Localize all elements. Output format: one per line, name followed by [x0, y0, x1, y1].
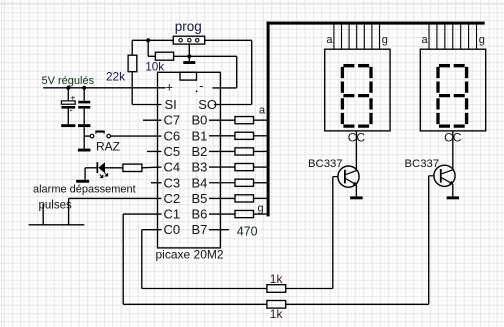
connector prog pin2 — [188, 39, 191, 42]
wire 22k top lead — [131, 40, 133, 55]
svg-text:+: + — [70, 93, 75, 103]
junction dot prog-10k — [146, 38, 150, 42]
wire RAZ to C6 — [111, 135, 162, 137]
pin stub B7 — [209, 229, 229, 231]
label Q1 BC337 — [308, 158, 343, 170]
wire resistor B5 to bus — [254, 197, 267, 199]
wire prog to SO vertical — [251, 40, 253, 104]
svg-text:10k: 10k — [145, 60, 164, 74]
svg-text:picaxe 20M2: picaxe 20M2 — [156, 248, 224, 262]
wire resistor to C4 — [142, 166, 162, 169]
pin stub B5 — [209, 197, 235, 199]
label prog — [175, 19, 202, 34]
wire C1 bottom lead — [67, 109, 69, 125]
label C1 pin — [164, 207, 181, 222]
wire C1 to R-1k-2 — [123, 303, 267, 305]
wire C0 net — [142, 230, 162, 289]
svg-text:alarme dépassement: alarme dépassement — [33, 183, 136, 195]
resistor 470 #3 body — [235, 148, 254, 155]
label 1k second — [270, 307, 284, 321]
wire base Q1 BC337 vertical — [332, 177, 334, 289]
wire collector Q2 BC337 — [452, 131, 454, 170]
wire 5V rail — [43, 87, 165, 89]
wire 22k bottom to SI — [132, 72, 161, 105]
label SI pin — [165, 97, 177, 112]
display DISP2 body — [420, 49, 485, 131]
svg-text:C0: C0 — [164, 222, 181, 237]
label B1 pin — [192, 128, 208, 143]
display DISP2 digit segments — [438, 66, 467, 126]
wire resistor B6 to bus — [254, 213, 267, 215]
pin stub B6 — [209, 213, 235, 215]
label segment g column — [258, 203, 264, 215]
wire emitter Q1 BC337 — [355, 185, 357, 197]
ground RAZ — [78, 149, 91, 152]
wire 10k left lead — [148, 40, 155, 56]
capacitor C2 top plate — [78, 101, 90, 104]
label picaxe 20M2 — [156, 248, 224, 262]
display DISP1 body — [325, 49, 390, 131]
transistor Q1 BC337 internals — [333, 170, 357, 185]
svg-text:C2: C2 — [164, 191, 181, 206]
pin stub B4 — [209, 182, 235, 184]
svg-text:BC337: BC337 — [405, 158, 440, 170]
label B3 pin — [192, 160, 208, 175]
wire base Q2 BC337 vertical — [428, 176, 430, 304]
label 22k — [106, 69, 125, 83]
wire prog right segment — [205, 39, 252, 41]
label alarme depassement — [33, 183, 136, 195]
pin stub B0 — [209, 119, 235, 121]
label plus pin — [166, 81, 173, 95]
pin stub C7 — [143, 119, 162, 121]
label B6 pin — [192, 207, 208, 222]
svg-text:5V régulés: 5V régulés — [42, 75, 95, 87]
wire prog ground stub — [188, 56, 190, 61]
pulse symbol baseline — [29, 224, 85, 226]
pulse symbol left edge — [42, 204, 44, 225]
label DISP1 pin g — [382, 34, 388, 46]
wire resistor B2 to bus — [254, 150, 267, 152]
svg-text:-: - — [70, 105, 73, 116]
wire C2 bottom lead — [83, 109, 85, 125]
label DISP1 CC — [348, 131, 366, 145]
label C3 pin — [164, 175, 181, 190]
label SO pin — [198, 97, 217, 112]
wire resistor B1 to bus — [254, 135, 267, 137]
pulse symbol right edge — [68, 198, 70, 224]
label 10k — [145, 60, 164, 74]
svg-text:a: a — [259, 105, 266, 117]
label minus pin — [196, 79, 204, 93]
ground Q1 BC337 — [350, 196, 363, 199]
ground cap C2 — [78, 124, 90, 127]
resistor R-1k-1 body — [267, 285, 286, 293]
svg-text:C1: C1 — [164, 207, 181, 222]
wire prog pin2 down — [188, 44, 190, 56]
svg-text:g: g — [382, 34, 388, 46]
label C5 pin — [164, 144, 181, 159]
svg-text:1k: 1k — [270, 307, 284, 321]
wire R-1k-1 to Q1 base — [286, 288, 333, 290]
svg-text:C4: C4 — [164, 160, 181, 175]
display DISP1 pins — [334, 25, 380, 50]
led D1 cathode bar — [97, 162, 99, 173]
wire emitter Q2 BC337 — [452, 184, 454, 196]
junction dot rail-C1cap — [66, 86, 70, 90]
pin stub C5 — [147, 150, 162, 152]
label B7 pin — [192, 222, 208, 237]
label 470 — [237, 225, 258, 239]
svg-text:B5: B5 — [192, 191, 208, 206]
bus horizontal — [267, 22, 485, 25]
label DISP2 CC — [444, 131, 462, 145]
label C2 pin — [164, 191, 181, 206]
connector prog body — [173, 36, 204, 44]
label B4 pin — [192, 175, 208, 190]
resistor R-1k-2 body — [267, 301, 286, 309]
label segment a column — [259, 105, 266, 117]
pushbutton RAZ contact left — [90, 134, 94, 138]
display DISP2 pins — [429, 25, 477, 50]
transistor Q2 BC337 internals — [429, 169, 454, 184]
capacitor C1 plus plate — [61, 101, 75, 104]
svg-text:a: a — [422, 34, 429, 46]
pin stub B3 — [209, 166, 235, 168]
resistor 470 #1 body — [235, 117, 254, 124]
ic U1 picaxe 20M2 body — [158, 72, 221, 248]
resistor 470 #5 body — [235, 179, 254, 186]
wire C2 top lead — [83, 88, 85, 101]
wire RAZ ground link — [83, 127, 85, 149]
wire R-1k-2 to Q2 base — [286, 303, 429, 305]
wire C1 net — [123, 214, 161, 304]
svg-text:SO: SO — [198, 97, 217, 112]
svg-text:22k: 22k — [106, 69, 125, 83]
label C0 pin — [164, 222, 181, 237]
svg-text:prog: prog — [175, 19, 202, 34]
junction dot 10k-progpin2 — [187, 54, 191, 58]
connector prog pin1 — [179, 39, 182, 42]
wire C1 top lead — [67, 88, 69, 101]
wire resistor B4 to bus — [254, 182, 267, 184]
wire resistor B3 to bus — [254, 166, 267, 168]
wire LED to resistor — [105, 167, 123, 169]
connector prog pin3 — [196, 39, 199, 42]
label Q2 BC337 — [405, 158, 440, 170]
transistor Q2 BC337 body — [434, 165, 455, 186]
svg-text:B2: B2 — [192, 144, 208, 159]
pin stub B2 — [209, 150, 235, 152]
bus vertical — [267, 22, 270, 217]
svg-text:1k: 1k — [270, 272, 284, 286]
svg-text:C3: C3 — [164, 175, 181, 190]
wire minus net — [213, 56, 237, 88]
label RAZ — [96, 140, 120, 154]
transistor Q1 BC337 body — [338, 166, 359, 187]
ground Q2 BC337 — [447, 196, 460, 199]
svg-text:B7: B7 — [192, 222, 208, 237]
resistor 470 #6 body — [235, 195, 254, 202]
capacitor C1 polarity plus — [70, 93, 75, 103]
svg-text:g: g — [258, 203, 264, 215]
led D1 arrows — [100, 173, 108, 178]
ground prog — [183, 61, 195, 64]
resistor R-22k body — [128, 55, 137, 71]
wire SO lead — [214, 104, 252, 106]
svg-text:RAZ: RAZ — [96, 140, 120, 154]
svg-text:SI: SI — [165, 97, 177, 112]
ground cap C1 — [61, 124, 75, 127]
svg-text:B6: B6 — [192, 207, 208, 222]
wire RAZ left lead — [84, 135, 90, 137]
pin stub B1 — [209, 135, 235, 137]
resistor R-10k body — [155, 52, 173, 60]
svg-text:C5: C5 — [164, 144, 181, 159]
wire resistor B0 to bus — [254, 119, 267, 121]
svg-text:B0: B0 — [192, 113, 208, 128]
pushbutton RAZ contact right — [107, 134, 111, 138]
wire C0 to R-1k-1 — [142, 288, 267, 290]
capacitor C1 polarity minus — [70, 105, 73, 116]
led D1 triangle — [98, 162, 105, 173]
svg-text:C7: C7 — [164, 113, 181, 128]
label 1k first — [270, 272, 284, 286]
svg-text:a: a — [326, 34, 333, 46]
pin stub C3 — [151, 182, 162, 184]
wire 10k right segment — [174, 55, 237, 57]
svg-text:C6: C6 — [164, 128, 181, 143]
label C6 pin — [164, 128, 181, 143]
wire prog top left segment — [132, 39, 173, 41]
label C4 pin — [164, 160, 181, 175]
svg-text:B3: B3 — [192, 160, 208, 175]
display DISP1 digit segments — [342, 66, 371, 126]
svg-text:-: - — [199, 79, 203, 93]
svg-text:g: g — [479, 34, 485, 46]
label DISP1 pin a — [326, 34, 333, 46]
svg-text:470: 470 — [237, 225, 258, 239]
wire collector Q1 BC337 — [355, 131, 357, 171]
svg-text:+: + — [166, 81, 173, 95]
capacitor C2 bottom plate — [78, 106, 90, 109]
resistor 470 #4 body — [235, 164, 254, 171]
label DISP2 pin g — [479, 34, 485, 46]
ground LED — [76, 180, 89, 183]
svg-text:B1: B1 — [192, 128, 208, 143]
net label 5V regules — [42, 75, 95, 87]
label pulses — [39, 199, 72, 211]
resistor R-led body — [123, 164, 142, 171]
capacitor C1 minus plate — [61, 106, 75, 109]
wire LED ground lead — [85, 168, 97, 180]
label C7 pin — [164, 113, 181, 128]
resistor 470 #2 body — [235, 132, 254, 139]
label B5 pin — [192, 191, 208, 206]
wire pulses to C2 — [69, 197, 162, 199]
label DISP2 pin a — [422, 34, 429, 46]
pushbutton RAZ actuator bar — [95, 131, 105, 134]
resistor 470 #7 body — [235, 210, 254, 217]
label B2 pin — [192, 144, 208, 159]
junction dot rail-C2cap — [82, 86, 86, 90]
svg-text:B4: B4 — [192, 175, 208, 190]
label B0 pin — [192, 113, 208, 128]
svg-text:BC337: BC337 — [308, 158, 343, 170]
